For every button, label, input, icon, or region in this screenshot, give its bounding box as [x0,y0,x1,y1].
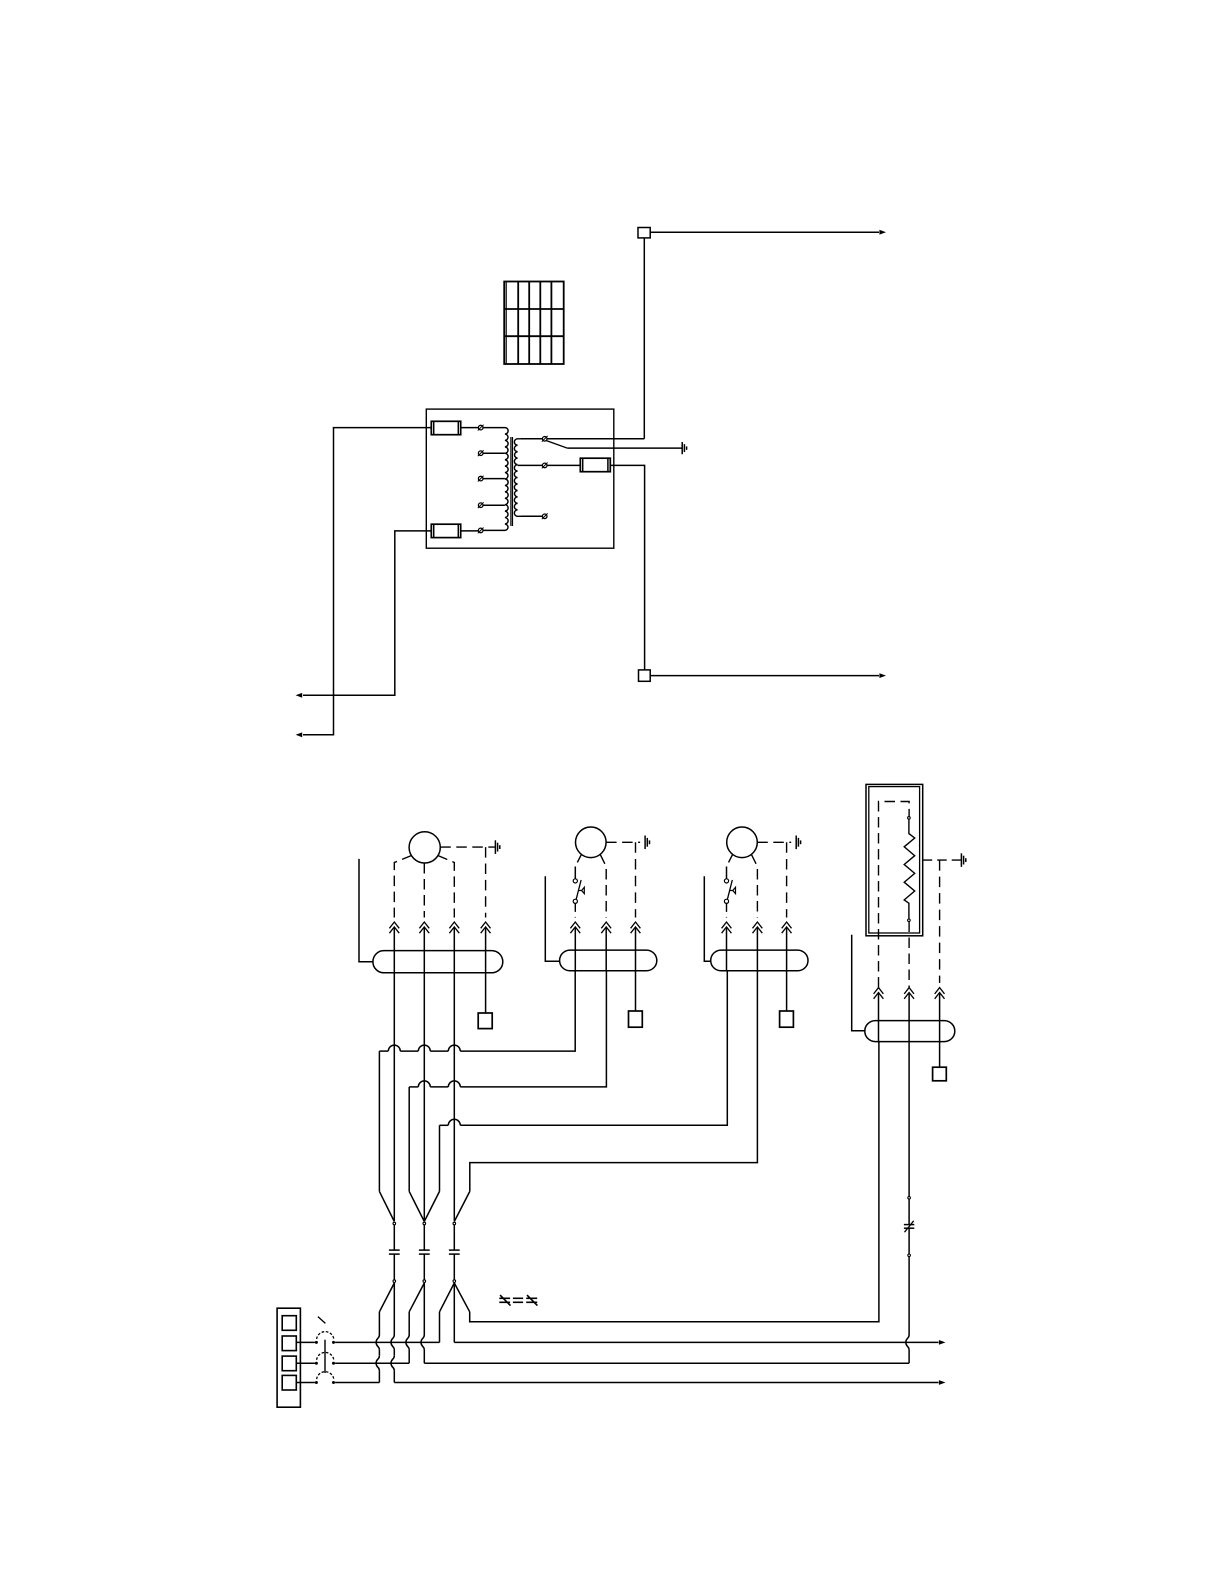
branch line M1 left [359,859,373,962]
shield node lower [453,1280,456,1283]
node heater line lower [908,1254,911,1257]
wire loom4 to ground block Q4 [939,1042,941,1068]
terminal S3 [542,514,547,519]
wire secondary mid to terminal S2 [518,464,543,466]
cable entry chevrons [722,922,732,928]
wire into loom M3 [726,928,728,971]
terminal square T1 [638,228,650,238]
heater enclosure outer [866,784,923,935]
capacitor (cable shield) [419,1249,430,1251]
dashed leg M3 left lower [726,903,728,917]
cable entry chevrons [481,922,491,928]
wire bus H4 [470,971,758,1192]
wire shield2 down [408,1312,410,1335]
switch blade S1 [546,441,567,449]
branch line M2 left [545,876,559,961]
wire into loom 1 [393,928,395,973]
transformer core [510,437,512,526]
switch contact dot left 1 [315,1341,318,1344]
wire terminal P1 to primary coil [483,427,501,429]
dashed leg M2 left lower [574,903,576,917]
wire terminal S2 to fuse F2 [547,464,580,466]
terminal P1 [478,425,483,430]
wire bus H3 [460,971,727,1126]
shield node upper [393,1222,396,1225]
wire F1 to terminal 1 [461,427,479,429]
wire loom1 to ground block Q1 [485,973,487,1013]
dashed ground branch M2 [635,842,637,917]
wire blade to ground [567,447,682,449]
cable entry chevrons [753,922,763,928]
wire loom to ground block M3 [786,971,788,1011]
dashed leg M1 center [423,863,425,918]
cable entry chevrons [449,922,459,928]
terminal P5 [478,528,483,533]
heater enclosure inner [869,787,920,933]
shield node upper [423,1222,426,1225]
wire T1 to arrow [650,231,879,233]
grid table (terminal strip chart) [504,282,564,365]
wire shield1 down [378,1312,380,1335]
wire loom1 line a down [393,973,395,1221]
dashed heater loop [879,802,910,988]
terminal S1 [542,437,547,442]
cable entry chevrons heater [904,988,914,994]
wire loom1 line c down [453,973,455,1221]
thermal switch M2 [573,879,577,883]
wire into loom 1 [453,928,455,973]
wire T1 down to secondary tap [643,238,645,439]
ground (motor M3) [795,836,797,850]
wire L1 input run [303,531,431,695]
shield node lower [393,1280,396,1283]
dashed ground branch M3 [786,842,788,917]
dashed leg M1 right [438,855,455,917]
node heater bottom [908,919,911,922]
wire into loom M2 [635,928,637,971]
branch line heater left [852,935,865,1031]
fuse F2 [580,458,610,472]
ground (transformer) [681,442,683,454]
wire F3 to terminal 5 [461,530,479,532]
node heater top [908,817,911,820]
wire into loom M2 [605,928,607,971]
arrow input L1 [296,693,303,698]
arrow input L2 [296,732,303,737]
capacitor (cable shield) [389,1249,400,1251]
wire pin4 to switch [296,1382,315,1384]
cable entry chevrons heater [935,988,945,994]
wire heater return lower [908,1229,910,1255]
fuse F3 [431,524,460,537]
switch contact dot right 2 [332,1362,335,1365]
wire secondary top to terminal S1 [521,438,542,440]
dashed leg M3 right [751,854,757,917]
cable merge diagonals top [379,1191,394,1221]
branch line M3 left [704,876,710,961]
dashed ground wire M1 [440,846,495,848]
loom M2 (cable sleeve) [560,950,657,971]
primary winding [501,428,508,531]
cable split diagonals bottom [379,1283,394,1312]
ground block Q1 [478,1013,492,1029]
wire into loom 4 [939,994,941,1042]
terminal square T2 [639,670,651,681]
switch contact dot left 3 [315,1381,318,1384]
wire cable stem [423,1225,425,1250]
bus line B left [335,1362,409,1364]
bus line A right [454,1341,938,1343]
connector J1 pin 2 [282,1336,296,1351]
dashed ground branch heater [939,860,941,983]
dashed heater return [908,922,910,988]
dashed leg M2 right [600,854,606,917]
arrow output top right [879,230,886,235]
dashed leg M1 left [394,855,412,917]
wire bus H1 [460,971,575,1051]
secondary winding [514,439,521,517]
wire into loom M2 [574,928,576,971]
switch arc 3 [317,1372,334,1379]
switch contact dot left 2 [315,1362,318,1365]
switch arc 1 [317,1332,334,1339]
cable entry chevrons [570,922,580,928]
cable entry chevrons [782,922,792,928]
wire cable stem [453,1225,455,1250]
wire into loom M3 [786,928,788,971]
capacitor (cable shield) [449,1249,460,1251]
cable entry chevrons [601,922,611,928]
dashed ground wire heater [923,859,961,861]
cable entry chevrons [419,922,429,928]
wire pin3 to switch [296,1362,315,1364]
heater element R [904,819,915,919]
wire cable2 down [423,1283,425,1335]
bus line C left [335,1382,379,1384]
loom 4 (cable sleeve) [865,1021,955,1042]
wire stems to bus [393,1224,395,1226]
loom M3 (cable sleeve) [711,950,808,971]
arrow bus A [939,1340,946,1345]
wire loom1 line b down [423,973,425,1221]
dashed ground wire M3 [757,841,791,843]
ground (motor M2) [644,836,646,850]
transformer enclosure box [426,409,614,548]
switch contact dot right 1 [332,1341,335,1344]
ground block M3 [780,1011,794,1027]
connector J1 pin 4 [282,1375,296,1390]
motor M3 [727,827,758,858]
wire bus H2 [460,971,606,1087]
wire shield3 down [439,1312,441,1343]
wire into loom 4 [908,994,910,1042]
bus line B right [424,1362,909,1364]
arrow output bottom right [879,673,886,678]
wire cable stem lower [453,1254,455,1279]
wire into loom 1 [423,928,425,973]
wire into loom 1 [485,928,487,973]
wire into loom 4 [878,994,880,1042]
wire terminal P4 to primary coil [483,504,505,506]
fuse F1 [431,421,460,434]
ground block Q4 [933,1067,947,1081]
cable entry chevrons [631,922,641,928]
wire terminal P3 to primary coil [483,478,505,480]
wire terminal P2 to primary coil [483,452,505,454]
dashed leg M3 left upper [727,854,733,866]
connector J1 pin 1 [282,1316,296,1331]
wire T2 to arrow [650,675,879,677]
wire secondary bottom to terminal S3 [521,515,542,517]
wire cable3 down [453,1283,455,1342]
shield node lower [423,1280,426,1283]
connector J1 pin 3 [282,1356,296,1371]
wire into loom M3 [756,928,758,971]
dashed ground branch M1 [485,847,487,917]
ground (heater) [960,853,962,867]
wire terminal S1 to T1 drop [547,438,644,440]
switch linkage [324,1340,326,1373]
shield node upper [453,1222,456,1225]
cable entry chevrons heater [874,988,884,994]
motor M2 [576,827,607,858]
ground block M2 [629,1011,643,1027]
wire pin2 to switch [296,1341,315,1343]
terminal P2 [478,451,483,456]
legend crossed capacitors [499,1297,510,1299]
wire cable1 down [393,1224,395,1226]
loom 1 (cable sleeve) [373,951,503,973]
motor M1 [409,832,440,863]
terminal P3 [478,476,483,481]
dashed leg M2 left upper [575,854,581,866]
switch arc 2 [317,1352,334,1359]
wire heater return down [908,1042,910,1197]
bus line C right [394,1382,938,1384]
arrow bus C [939,1380,946,1385]
ground (motor M1) [494,840,496,854]
wire heater return mid [908,1199,910,1224]
switch contact dot right 3 [332,1381,335,1384]
bus line A left [335,1341,439,1343]
wire F2 to T2 drop [610,465,644,670]
connector J1 housing [277,1308,300,1407]
wire loom to ground block M2 [635,971,637,1011]
capacitor (heater, crossed) [904,1224,914,1226]
terminal P4 [478,503,483,508]
switch actuator mark [318,1317,326,1324]
wire cable stem [393,1225,395,1250]
wire cable3 aux to heater left [470,1042,879,1322]
wire terminal P5 to primary coil [483,529,501,531]
terminal S2 [542,463,547,468]
wire cable stem lower [423,1254,425,1279]
cable entry chevrons [389,922,399,928]
wire cable stem lower [393,1254,395,1279]
wire L2 input run [303,428,431,735]
node heater line upper [908,1197,911,1200]
dashed ground wire M2 [606,841,640,843]
thermal switch M3 [724,879,728,883]
